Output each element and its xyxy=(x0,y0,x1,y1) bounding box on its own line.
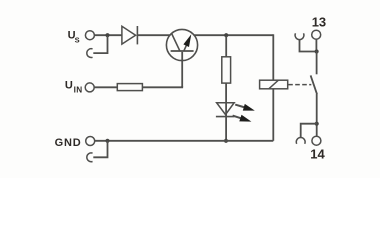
wire contact to 14 xyxy=(316,94,318,136)
svg-text:U: U xyxy=(65,80,73,92)
wire transistor base lead xyxy=(181,52,183,88)
terminal 13 screw circle xyxy=(312,30,321,39)
wire coil to GND rail xyxy=(272,89,274,141)
node junction LED GND xyxy=(224,139,228,143)
label US xyxy=(68,29,80,44)
relay coil K1 xyxy=(260,80,288,89)
label UIN xyxy=(65,80,83,95)
resistor R2 xyxy=(222,57,231,83)
node junction top rail R2 tap xyxy=(224,33,228,37)
wire 13 socket bridge xyxy=(300,39,317,51)
socket contact US (arc open right) xyxy=(87,49,93,58)
wire R2 top lead xyxy=(225,36,227,57)
transistor Q1 xyxy=(166,29,197,60)
wire transistor to corner xyxy=(194,34,273,36)
wire 13 circle to contact xyxy=(315,39,317,51)
resistor R1 xyxy=(117,84,142,91)
wire UIN circle to resistor xyxy=(94,86,117,88)
LED arrow 1 xyxy=(235,104,255,111)
contact blade NO xyxy=(311,75,317,94)
wire 14 socket bridge xyxy=(301,124,317,138)
svg-text:GND: GND xyxy=(55,137,82,149)
wire R2 to LED to GND rail xyxy=(225,83,227,141)
terminal GND screw circle xyxy=(86,137,95,146)
wire corner to relay coil xyxy=(272,34,274,80)
svg-text:IN: IN xyxy=(74,85,83,94)
wire R1 to base corner xyxy=(142,86,182,87)
wire US socket bridge xyxy=(93,36,107,53)
terminal US screw circle xyxy=(85,31,94,40)
node junction 13 xyxy=(315,49,319,53)
svg-text:13: 13 xyxy=(312,15,326,30)
terminal UIN screw circle xyxy=(85,83,94,92)
wire US circle to diode xyxy=(95,34,122,36)
contact fixed lead xyxy=(316,52,318,75)
socket contact GND (arc open right) xyxy=(87,153,93,162)
socket contact 14 (arc open down) xyxy=(296,138,305,144)
LED D2 xyxy=(216,103,235,117)
node junction US bridge xyxy=(105,33,109,37)
wire diode to transistor xyxy=(137,34,170,36)
node junction 14 xyxy=(315,122,319,126)
terminal 14 screw circle xyxy=(312,136,321,145)
svg-text:S: S xyxy=(75,35,80,44)
diode D1 xyxy=(122,26,137,44)
wire GND socket bridge xyxy=(93,141,107,158)
GND rail wire xyxy=(95,140,273,142)
node junction GND bridge xyxy=(105,139,109,143)
LED arrow 2 xyxy=(233,115,252,122)
socket contact 13 (arc open up) xyxy=(295,33,304,39)
mechanical link dashed xyxy=(288,84,311,86)
svg-text:14: 14 xyxy=(310,147,325,162)
